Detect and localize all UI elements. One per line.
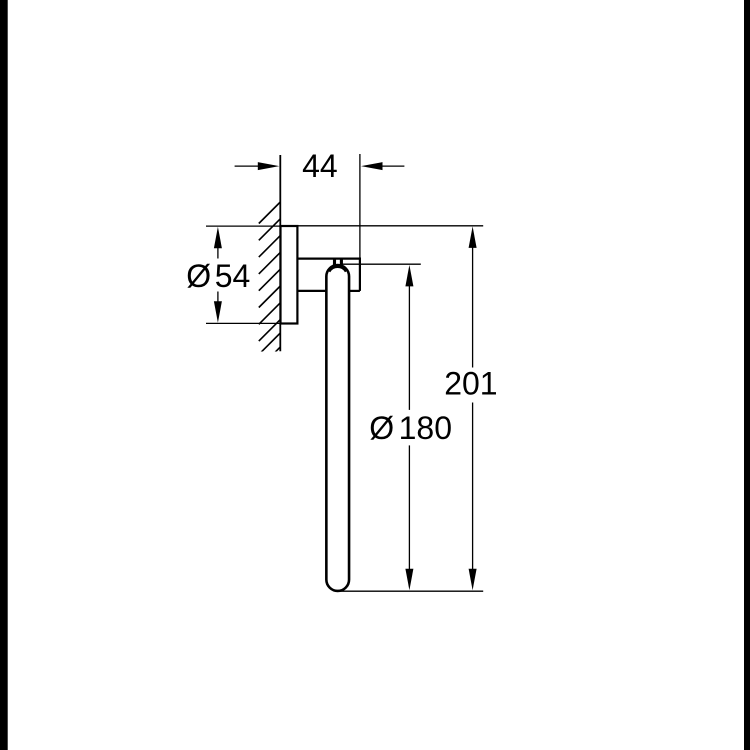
dimension 44 left arrow	[235, 162, 280, 170]
svg-text:54: 54	[215, 258, 251, 294]
svg-text:Ø: Ø	[369, 410, 394, 446]
dimension Ø180 line and arrows	[405, 265, 413, 590]
bottom extension line shared by 201 and Ø180	[340, 590, 483, 592]
svg-text:201: 201	[444, 366, 497, 402]
svg-text:44: 44	[302, 148, 338, 184]
dimension 201 top extension line	[297, 225, 483, 227]
left black border bar	[0, 0, 8, 750]
right black border bar	[744, 0, 750, 750]
dimension Ø54 line and arrows	[214, 227, 222, 323]
wall face line	[279, 155, 281, 351]
svg-text:180: 180	[399, 410, 452, 446]
wall hatching	[259, 202, 281, 369]
dimension 44 right extension line	[359, 154, 361, 259]
mounting arm	[297, 258, 360, 291]
svg-text:Ø: Ø	[186, 258, 211, 294]
dimension Ø54 extension lines	[206, 225, 281, 227]
escutcheon plate (Ø54) side view	[281, 226, 298, 324]
towel ring outer profile (Ø180)	[326, 265, 349, 591]
towel ring inner crescent	[329, 267, 345, 272]
dimension Ø180 top extension line	[342, 263, 421, 265]
pivot pin	[335, 259, 342, 265]
dimension 44 right arrow	[361, 162, 404, 170]
dimension 201 line and arrows	[469, 226, 477, 590]
